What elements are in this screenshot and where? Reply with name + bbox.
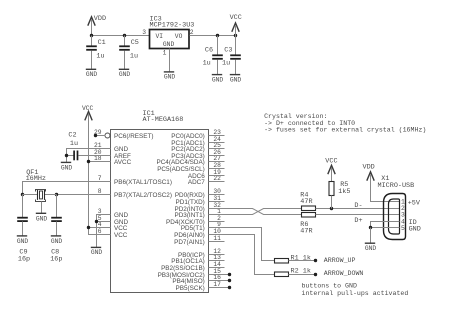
svg-text:GND: GND <box>163 41 175 48</box>
ground below C3 <box>230 75 242 84</box>
svg-text:1u: 1u <box>130 53 138 61</box>
svg-text:GND: GND <box>17 238 29 245</box>
USB pin 5 GND <box>371 225 421 234</box>
svg-text:PB6(XTAL1/TOSC1): PB6(XTAL1/TOSC1) <box>114 179 172 186</box>
svg-text:D-: D- <box>354 202 362 210</box>
resistor R2 1k <box>275 268 311 277</box>
wire GND pin 3 <box>97 215 111 248</box>
svg-text:PD3(INT1): PD3(INT1) <box>174 212 204 219</box>
capacitor C1 1u <box>86 36 106 70</box>
wire XTAL2 pin 8 <box>57 194 111 196</box>
ground below GND pins <box>91 247 103 256</box>
supply VCC (middle left) <box>82 105 94 120</box>
svg-text:16p: 16p <box>50 255 62 263</box>
svg-text:2: 2 <box>190 29 194 36</box>
svg-text:1u: 1u <box>203 60 211 68</box>
svg-text:internal pull-ups activated: internal pull-ups activated <box>302 290 409 297</box>
node junction C6 <box>216 34 219 37</box>
node junction crystal right <box>55 193 58 196</box>
svg-text:VCC: VCC <box>114 232 128 239</box>
svg-text:PD5(T1): PD5(T1) <box>181 225 205 232</box>
pin 15 stub with solder dot <box>209 273 232 276</box>
svg-text:buttons to GND: buttons to GND <box>302 283 357 290</box>
resistor R1 1k <box>275 255 311 264</box>
node junction C5 <box>123 34 126 37</box>
svg-text:16p: 16p <box>18 255 30 263</box>
resistor R5 1k5 <box>329 181 350 196</box>
svg-text:PB5(SCK): PB5(SCK) <box>176 285 205 292</box>
svg-text:GND: GND <box>36 215 48 222</box>
svg-text:PB2(SS/OC1B): PB2(SS/OC1B) <box>161 265 205 272</box>
svg-text:GND: GND <box>114 146 129 153</box>
svg-text:GND: GND <box>114 212 129 219</box>
wire VCC vertical to VCC pins <box>89 114 111 235</box>
wire VCC pin 4 <box>89 227 111 229</box>
USB pin 4 ID <box>371 218 417 227</box>
node junction GND pins <box>95 220 98 223</box>
node junction VCC pins <box>87 226 90 229</box>
svg-text:PC6(/RESET): PC6(/RESET) <box>114 133 153 140</box>
note buttons <box>302 283 409 297</box>
svg-text:GND: GND <box>86 71 98 78</box>
svg-text:5: 5 <box>401 225 405 232</box>
svg-text:C3: C3 <box>224 47 232 55</box>
node ARROW_DOWN solder dot <box>314 273 317 276</box>
capacitor C3 1u <box>222 36 241 75</box>
IC1 right pin names and numbers <box>157 129 222 292</box>
supply VDD (input rail) <box>88 15 106 35</box>
supply VCC (top) <box>230 14 242 35</box>
ground below C2 <box>61 162 73 171</box>
svg-text:PC5(ADC5/SCL): PC5(ADC5/SCL) <box>157 166 205 173</box>
wire PD3/INT1 pin 1 to D- (crossover) <box>209 209 302 215</box>
capacitor C9 16p <box>17 195 30 264</box>
svg-text:-> fuses set for external crys: -> fuses set for external crystal (16MHz… <box>264 127 426 134</box>
svg-text:1k5: 1k5 <box>338 188 350 196</box>
svg-text:GND: GND <box>61 165 73 172</box>
svg-text:1u: 1u <box>96 53 104 61</box>
node junction USB GND <box>369 226 372 229</box>
wire R2 to button node <box>289 274 316 276</box>
pin 16 stub with solder dot <box>209 279 232 282</box>
capacitor C8 16p <box>50 195 62 264</box>
svg-text:1u: 1u <box>222 60 230 68</box>
svg-text:PD0(RXD): PD0(RXD) <box>175 192 205 199</box>
resistor R4 47R <box>300 191 315 210</box>
svg-text:VDD: VDD <box>94 15 106 23</box>
svg-text:VCC: VCC <box>230 14 242 22</box>
wire AVCC pin 18 <box>89 161 111 163</box>
connector X1 MICRO-USB outline <box>378 175 415 240</box>
wire XTAL1 pin 7 <box>23 182 111 195</box>
svg-text:R1 1k: R1 1k <box>291 255 311 263</box>
svg-text:VCC: VCC <box>82 105 94 112</box>
wire D+ to USB pin 3 <box>316 214 400 216</box>
svg-text:3: 3 <box>142 29 146 36</box>
supply VCC (pull-up) <box>325 158 337 182</box>
svg-text:PB4(MISO): PB4(MISO) <box>172 278 204 285</box>
svg-text:PC0(ADC0): PC0(ADC0) <box>171 133 205 140</box>
svg-text:AVCC: AVCC <box>114 159 132 166</box>
svg-text:C2: C2 <box>68 132 76 140</box>
svg-text:AT-MEGA168: AT-MEGA168 <box>143 116 184 124</box>
wire PD6/AIN0 pin 10 to R2 <box>209 235 275 275</box>
svg-text:PD6(AIN0): PD6(AIN0) <box>174 232 205 239</box>
wire D- to USB pin 2 <box>316 208 400 210</box>
svg-text:ARROW_UP: ARROW_UP <box>324 257 356 264</box>
svg-text:GND: GND <box>164 74 176 81</box>
svg-text:PC2(ADC2): PC2(ADC2) <box>171 146 205 153</box>
svg-text:+5V: +5V <box>408 199 421 207</box>
svg-text:PB7(XTAL2/TOSC2): PB7(XTAL2/TOSC2) <box>114 192 172 199</box>
svg-text:C6: C6 <box>205 47 213 55</box>
svg-text:ADC7: ADC7 <box>188 179 205 186</box>
IC1 left pin names and numbers <box>94 129 172 239</box>
svg-text:GND: GND <box>409 226 421 234</box>
voltage regulator IC3 MCP1792-3U3 <box>150 16 195 49</box>
wire PD2/INT0 pin 32 to D+ (crossover) <box>209 209 302 215</box>
note crystal version <box>264 113 426 134</box>
svg-text:VO: VO <box>175 33 183 40</box>
pin 29 /RESET bubble and stub dot <box>94 133 110 138</box>
svg-text:VCC: VCC <box>114 225 128 232</box>
svg-text:D+: D+ <box>354 217 362 225</box>
ground below C5 <box>119 69 131 78</box>
svg-text:1: 1 <box>163 50 167 57</box>
node junction R5/D- <box>330 207 333 210</box>
svg-text:PD1(TXD): PD1(TXD) <box>176 199 205 206</box>
capacitor C6 1u <box>203 36 223 75</box>
svg-text:PB1(OC1A): PB1(OC1A) <box>171 258 205 265</box>
ground below IC3 <box>164 72 176 81</box>
ground below USB <box>365 243 377 252</box>
node junction C2/GND <box>65 154 68 157</box>
wire VDD rail to IC3 VI <box>92 35 150 37</box>
svg-text:ARROW_DOWN: ARROW_DOWN <box>324 270 364 277</box>
capacitor C5 1u <box>119 36 139 70</box>
svg-text:1u: 1u <box>70 140 78 148</box>
USB pin 1 +5V <box>401 199 421 208</box>
node junction crystal left <box>21 193 24 196</box>
svg-text:47R: 47R <box>300 228 312 236</box>
wire VDD to USB pin 1 <box>371 175 400 202</box>
svg-text:C5: C5 <box>131 39 139 47</box>
ground below crystal case <box>36 213 48 222</box>
svg-text:MICRO-USB: MICRO-USB <box>378 182 415 190</box>
wire GND pin 5 <box>97 221 111 223</box>
svg-text:VI: VI <box>156 33 164 40</box>
node junction AVCC <box>87 160 90 163</box>
svg-text:16MHz: 16MHz <box>26 175 46 183</box>
wire GND pin 21 <box>67 149 111 163</box>
svg-text:GND: GND <box>230 77 242 84</box>
wire R5 to D- <box>331 196 333 209</box>
ic IC1 AT-MEGA168 body <box>111 110 209 292</box>
ground below C9 <box>17 236 29 245</box>
svg-text:VCC: VCC <box>325 158 337 166</box>
wire IC3 VO to VCC <box>190 35 236 37</box>
wire USB GND stem <box>370 228 372 244</box>
node junction VCC/C3 <box>234 34 237 37</box>
svg-text:GND: GND <box>212 77 224 84</box>
node ARROW_UP solder dot <box>314 259 317 262</box>
pin 1 GND stem of IC3 <box>163 49 170 72</box>
wire R1 to button node <box>289 260 316 262</box>
crystal QF1 16MHz <box>23 169 57 214</box>
supply VDD (USB) <box>363 164 375 181</box>
svg-text:PC4(ADC4/SDA): PC4(ADC4/SDA) <box>157 159 205 166</box>
resistor R6 47R <box>300 213 315 236</box>
pin 17 stub with solder dot <box>209 286 232 289</box>
svg-text:MCP1792-3U3: MCP1792-3U3 <box>150 21 195 29</box>
capacitor C2 1u on AREF <box>67 132 111 161</box>
svg-text:PD7(AIN1): PD7(AIN1) <box>174 239 205 246</box>
svg-text:GND: GND <box>119 71 131 78</box>
wire PD5/T1 pin 9 to R1 <box>209 228 275 261</box>
svg-text:GND: GND <box>365 245 377 252</box>
node junction VDD/C1 <box>90 34 93 37</box>
ground below C8 <box>51 236 63 245</box>
svg-text:GND: GND <box>51 238 63 245</box>
svg-text:47R: 47R <box>300 198 312 206</box>
ground below C1 <box>86 69 98 78</box>
ground below C6 <box>212 75 224 84</box>
svg-text:GND: GND <box>91 249 103 256</box>
IC1 right pin stubs <box>209 136 225 268</box>
svg-text:C1: C1 <box>98 39 106 47</box>
svg-text:VDD: VDD <box>363 164 375 172</box>
